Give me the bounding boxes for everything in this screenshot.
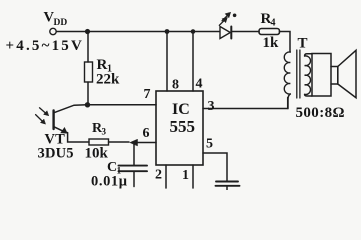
svg-text:T: T [298, 36, 308, 52]
svg-text:3DU5: 3DU5 [38, 146, 74, 162]
svg-text:5: 5 [206, 137, 213, 152]
wire pin3 output [203, 98, 288, 109]
svg-text:4: 4 [271, 18, 276, 29]
label C1 [107, 160, 122, 177]
op-amp U1: IC 555 timer box [156, 91, 203, 165]
wire pin7 [88, 104, 157, 106]
transformer core [297, 50, 300, 98]
label R3 [92, 121, 107, 137]
wire pin2 [165, 165, 167, 188]
wire pin8 [166, 32, 168, 92]
svg-text:3: 3 [102, 127, 107, 137]
node junction R1/rail [85, 29, 90, 34]
svg-text:3: 3 [208, 99, 215, 114]
wire pin4 [192, 32, 194, 92]
diode LED D1 [220, 27, 259, 39]
wire secondary bottom lead [305, 94, 312, 96]
svg-text:2: 2 [155, 168, 162, 183]
node junction collector/R1/pin7 [85, 102, 90, 107]
light arrow from LED 2 [219, 17, 227, 25]
label R1 [97, 57, 113, 75]
transformer T secondary winding [305, 56, 311, 95]
svg-text:555: 555 [170, 117, 196, 136]
svg-text:+4.5~15V: +4.5~15V [6, 38, 85, 54]
svg-text:1: 1 [182, 168, 189, 183]
wire secondary top lead [305, 54, 312, 56]
label VDD [44, 10, 68, 29]
resistor R3 [89, 139, 109, 145]
svg-text:8: 8 [172, 78, 179, 93]
wire primary bottom lead [288, 94, 290, 109]
svg-text:7: 7 [144, 87, 151, 102]
svg-text:22k: 22k [96, 72, 120, 88]
svg-text:4: 4 [196, 77, 203, 92]
node VDD terminal [50, 28, 56, 34]
transformer T primary winding [284, 52, 290, 94]
wire pin1 [192, 165, 194, 188]
wire pin5 [203, 153, 227, 181]
capacitor C2 on pin5 [216, 181, 238, 183]
light arrow 1 into VT [40, 108, 49, 116]
svg-text:IC: IC [172, 101, 190, 118]
light arrow from LED 1 [222, 12, 236, 20]
resistor R4 [259, 29, 280, 35]
wire R4 to transformer [280, 32, 291, 53]
svg-text:6: 6 [143, 126, 150, 141]
capacitor C1 [133, 143, 135, 166]
light arrow 2 into VT [36, 115, 46, 125]
svg-text:0.01μ: 0.01μ [91, 174, 128, 190]
wire pin6 [136, 142, 156, 144]
svg-text:10k: 10k [85, 146, 109, 162]
transistor VT (phototransistor 3DU5) [54, 105, 89, 142]
svg-text:500:8Ω: 500:8Ω [296, 105, 345, 121]
speaker B [312, 50, 356, 97]
svg-text:DD: DD [54, 18, 68, 28]
resistor R1 [87, 34, 89, 62]
wire top supply rail [56, 31, 219, 33]
svg-text:1k: 1k [263, 35, 280, 51]
node junction R3/C1/pin6 (arrow mark) [130, 139, 138, 146]
